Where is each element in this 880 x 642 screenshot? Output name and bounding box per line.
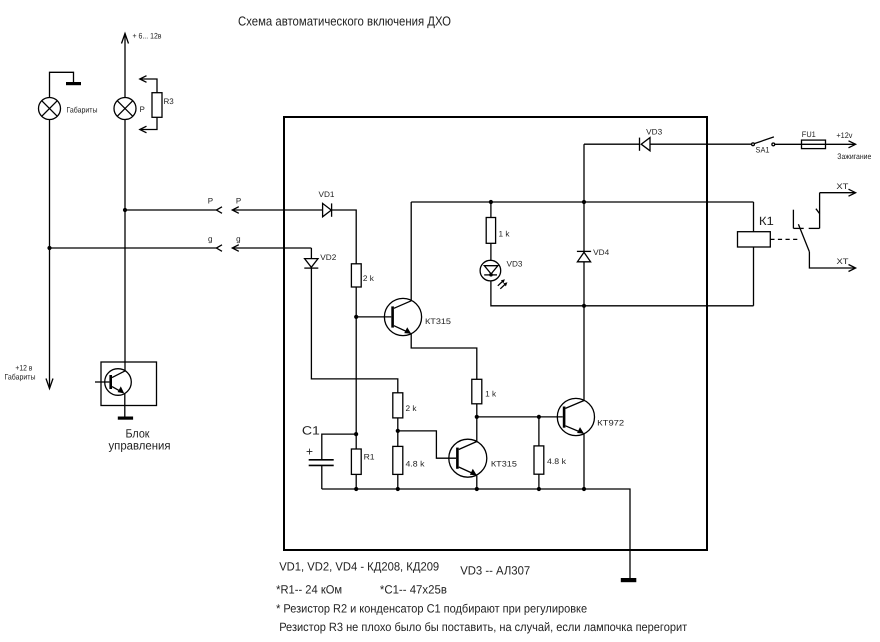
node C1 top: [354, 432, 358, 436]
svg-text:VD3: VD3: [507, 259, 524, 268]
svg-text:Зажигание: Зажигание: [837, 152, 871, 161]
wire Q2 collector node to Q3 base: [477, 416, 563, 418]
wire VD4 to bottom node: [583, 262, 585, 306]
svg-text:R3: R3: [164, 97, 175, 106]
node 4.8k2 top: [537, 415, 541, 419]
wire 2k2 to 4.8k: [397, 418, 399, 447]
svg-text:VD3: VD3: [646, 128, 663, 137]
wire 4.8k2 to rail: [538, 474, 540, 489]
wire VD3 branch vertical: [583, 144, 585, 202]
svg-text:+12 в: +12 в: [15, 363, 32, 372]
node Q1 base: [354, 315, 358, 319]
wire lamp Р down to control unit: [124, 120, 126, 371]
node rail R1: [354, 487, 358, 491]
contact XT top line: [820, 182, 856, 196]
wire base lead Q1: [356, 316, 391, 318]
svg-text:FU1: FU1: [802, 130, 816, 139]
wire lamp Габариты down: [49, 120, 51, 389]
resistor 1k (LED): [486, 218, 510, 244]
svg-text:Габариты: Габариты: [5, 372, 36, 381]
lamp Габариты: [39, 98, 98, 120]
wire 1k to LED: [490, 243, 492, 260]
wire VD1 to 2k: [332, 210, 357, 264]
svg-text:С1: С1: [302, 424, 320, 438]
fuse FU1: [802, 130, 826, 149]
svg-text:VD1, VD2, VD4 - КД208, КД209: VD1, VD2, VD4 - КД208, КД209: [279, 560, 439, 574]
svg-text:Габариты: Габариты: [67, 105, 98, 114]
wire node to 4.8k2: [538, 417, 540, 446]
wire P to connector: [125, 209, 216, 211]
svg-text:КТ972: КТ972: [597, 419, 625, 428]
resistor R1: [351, 449, 375, 474]
svg-text:4.8 k: 4.8 k: [406, 459, 426, 468]
node rail Q3 emitter: [582, 487, 586, 491]
capacitor C1: [302, 424, 356, 490]
wire 4.8k to rail: [397, 474, 399, 489]
svg-text:+12v: +12v: [836, 131, 852, 140]
node rail Q2 emitter: [475, 487, 479, 491]
wire divider to Q2 base: [398, 431, 456, 458]
diode VD2: [304, 248, 337, 268]
wire g to connector: [50, 247, 217, 249]
resistor 2k (second): [393, 393, 418, 418]
svg-text:Р: Р: [236, 197, 241, 206]
R3 top annotation arrow: [140, 76, 157, 93]
wire relay coil bottom: [753, 247, 755, 306]
svg-text:1 k: 1 k: [499, 230, 511, 239]
diode VD4: [577, 248, 610, 262]
svg-text:VD2: VD2: [320, 253, 337, 262]
lamp Р: [114, 98, 145, 120]
svg-text:управления: управления: [109, 439, 171, 453]
wire Q3 emitter to rail: [583, 434, 585, 489]
transistor (control unit): [95, 369, 131, 396]
wire VD2 down and right to R4: [311, 268, 397, 393]
svg-text:* Резистор R2 и конденсатор С1: * Резистор R2 и конденсатор С1 подбирают…: [276, 602, 587, 616]
contact blade: [798, 224, 809, 252]
diode VD1: [319, 190, 336, 217]
wire control unit emitter to ground: [124, 393, 126, 416]
svg-text:g: g: [208, 235, 212, 244]
resistor R3: [152, 93, 174, 118]
svg-text:ХТ: ХТ: [837, 257, 849, 266]
svg-text:VD4: VD4: [593, 248, 610, 257]
connector pin P left: [208, 197, 222, 214]
wire rail to 1k: [490, 202, 492, 218]
wire bottom rail: [322, 489, 630, 578]
svg-text:VD1: VD1: [319, 190, 336, 199]
resistor R2 2k: [351, 264, 375, 287]
wire rail to VD4: [583, 202, 585, 251]
svg-text:2 k: 2 k: [406, 404, 418, 413]
LED VD3: [480, 259, 523, 288]
node g junction: [47, 246, 51, 250]
contact fixed throw (right): [809, 193, 820, 229]
wire to Q3 collector: [583, 306, 585, 401]
ground (main): [621, 578, 637, 582]
node divider: [396, 429, 400, 433]
ground (control unit): [118, 417, 133, 420]
svg-text:ХТ: ХТ: [836, 182, 848, 191]
node Q2 collector: [475, 415, 479, 419]
svg-text:1 k: 1 k: [485, 390, 497, 399]
transistor Q3 KT972: [557, 398, 625, 435]
connector pin g left: [208, 235, 222, 252]
wire rail to relay coil: [753, 202, 755, 232]
relay K1 coil: [738, 214, 775, 247]
chassis ground (top-left): [50, 72, 82, 97]
svg-text:*R1-- 24 кОм: *R1-- 24 кОм: [276, 583, 342, 597]
node rail 4.8k: [396, 487, 400, 491]
diode VD3 (ignition): [640, 128, 663, 151]
wire LED down and across: [491, 281, 754, 306]
arrow +12в Габариты: [5, 363, 54, 388]
svg-text:g: g: [236, 235, 240, 244]
contact fixed pole (left): [793, 210, 803, 229]
control unit box: [101, 362, 157, 406]
svg-text:SA1: SA1: [756, 145, 771, 154]
wire 1k2 to Q2 collector: [476, 404, 478, 442]
wire 2k down through base node to C1 node: [355, 287, 357, 449]
svg-text:VD3 -- АЛ307: VD3 -- АЛ307: [460, 564, 530, 578]
node VD4 bottom: [582, 304, 586, 308]
svg-text:+: +: [306, 445, 313, 459]
dashed link relay to contact: [770, 238, 799, 240]
main circuit box: [284, 117, 707, 550]
svg-text:+ 6... 12в: + 6... 12в: [133, 32, 162, 41]
resistor 4.8k (first): [393, 446, 426, 474]
svg-text:4.8 k: 4.8 k: [547, 457, 567, 466]
contact XT bottom line: [809, 252, 855, 272]
connector arrow P right: [232, 197, 322, 214]
svg-text:*С1-- 47х25в: *С1-- 47х25в: [380, 583, 447, 597]
svg-text:К1: К1: [759, 214, 774, 228]
wire switch to fuse to +12v: [775, 143, 855, 145]
svg-text:КТ315: КТ315: [491, 459, 518, 468]
R3 bottom annotation arrow: [140, 117, 157, 133]
node rail 4.8k2: [537, 487, 541, 491]
connector arrow g right: [232, 235, 311, 252]
transistor Q2 KT315: [449, 439, 518, 477]
power arrow +6...12в: [122, 32, 162, 98]
wire VD3 feed line: [584, 143, 640, 145]
wire Q2 emitter to rail: [476, 475, 478, 489]
svg-text:R1: R1: [364, 453, 376, 462]
resistor 4.8k (second): [534, 446, 567, 474]
wire R1 to rail: [355, 474, 357, 489]
svg-text:Р: Р: [208, 197, 213, 206]
wire Q1 emitter to 1k: [411, 334, 477, 380]
switch SA1: [752, 137, 775, 155]
node VD4 top rail: [582, 200, 586, 204]
node rail-1k: [489, 200, 493, 204]
wire VD3 to switch: [650, 143, 752, 145]
node P junction: [123, 208, 127, 212]
svg-text:Р: Р: [140, 105, 145, 114]
svg-text:Резистор R3 не плохо было бы п: Резистор R3 не плохо было бы поставить, …: [279, 620, 687, 634]
svg-text:КТ315: КТ315: [425, 317, 452, 326]
arrow +12v Зажигание: [836, 131, 871, 161]
resistor 1k (second): [472, 379, 497, 404]
transistor Q1 KT315: [384, 298, 451, 335]
svg-text:Схема автоматического включени: Схема автоматического включения ДХО: [238, 14, 451, 29]
label Блок управления: [109, 426, 171, 452]
wire Q1 collector to rail: [410, 202, 412, 301]
svg-text:2 k: 2 k: [363, 274, 375, 283]
wire top rail: [411, 201, 753, 203]
